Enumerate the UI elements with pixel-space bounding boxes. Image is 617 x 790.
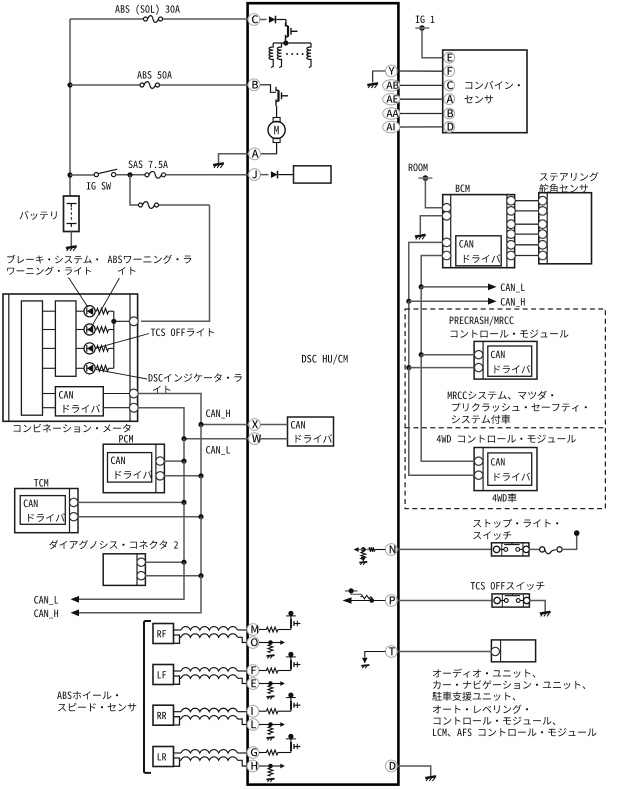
wire BCM to steering sensor 1 <box>515 200 538 202</box>
label CAN_L mid <box>206 446 230 455</box>
power P pull-up <box>349 588 354 593</box>
power stop light <box>574 530 580 536</box>
ellipsis dots coils <box>286 53 309 55</box>
wire CAN_H arrow right <box>409 300 488 302</box>
wire lamp 4 drive <box>43 367 85 369</box>
junction CAN_H at X <box>198 422 203 427</box>
twisted pair LF lower <box>180 675 249 684</box>
label MRCC note line1 <box>448 391 554 400</box>
dashed divider <box>405 427 605 429</box>
wire motor to A <box>261 143 277 154</box>
CAN_L bus vertical right <box>420 287 422 355</box>
wire TCM to CAN_H bus <box>78 516 201 518</box>
twisted pair LR lower <box>180 757 249 766</box>
wire Y internal ground <box>373 71 386 83</box>
label CAN_L right <box>501 284 525 293</box>
wire CAN_H bus to 4WD <box>409 368 475 476</box>
junction H internal <box>268 764 273 769</box>
label TCM <box>34 479 48 487</box>
arrow L internal <box>280 722 285 727</box>
CAN_H bus vertical right <box>408 301 410 367</box>
terminal H <box>247 760 259 772</box>
meter terminal CAN_H <box>129 389 138 398</box>
wire SAS to terminal J <box>166 174 249 176</box>
fuse ABS 50A <box>140 82 160 89</box>
meter lamp driver block <box>55 301 76 376</box>
junction diagnosis CAN_L <box>181 560 186 565</box>
wire coil to power <box>562 533 577 549</box>
twisted pair RR upper <box>174 708 249 711</box>
wire Y to sensor F <box>397 70 443 72</box>
CAN_L bus vertical 3 <box>183 502 185 562</box>
PCM box <box>103 444 164 493</box>
junction lamp bus <box>111 319 116 324</box>
wire battery to ground <box>70 232 72 247</box>
wire C diode to FET <box>285 20 287 26</box>
steering sensor terminal 5 <box>538 241 547 250</box>
junction O internal <box>268 640 273 645</box>
label stop light switch line2 <box>473 531 511 540</box>
meter inner block left <box>21 301 42 415</box>
terminal T <box>385 646 397 658</box>
label SAS 7.5A <box>129 161 168 169</box>
BCM left terminal 1 <box>442 204 451 213</box>
fuse ABS (SOL) 30A <box>144 16 163 23</box>
BCM connector strip right <box>506 195 508 268</box>
sensor terminal D <box>444 122 455 133</box>
BCM connector strip left <box>450 195 452 268</box>
resistor lamp 1 <box>95 308 114 314</box>
meter right connector strip <box>129 294 131 421</box>
diode after J <box>260 171 293 179</box>
CAN_H bus vertical 3 <box>200 517 202 576</box>
ground L internal <box>267 737 275 740</box>
PRECRASH terminal CAN_L <box>474 351 482 359</box>
label ABS (SOL) 30A <box>115 5 180 15</box>
ground at A <box>213 163 224 168</box>
wire lamp-feed branch <box>130 175 210 321</box>
twisted pair RF upper <box>174 627 249 630</box>
resistor E internal vertical <box>268 686 273 694</box>
wire N internal arrow <box>356 549 364 551</box>
terminal AE <box>383 94 400 105</box>
junction PRECRASH CAN_L <box>419 352 424 357</box>
fuse SAS 7.5A <box>145 171 166 178</box>
wire ABS 50A feed <box>70 84 248 86</box>
label CAN_H right <box>501 298 525 307</box>
diode after C <box>260 16 286 24</box>
label battery <box>20 211 57 220</box>
combine sensor box <box>443 50 527 133</box>
label ABS 50A <box>137 71 172 79</box>
junction PCM CAN_H <box>198 473 203 478</box>
diagnosis terminal CAN_H <box>137 572 145 580</box>
label 4WD only <box>492 493 516 502</box>
meter terminal CAN_L <box>129 403 138 412</box>
BCM box <box>443 195 515 268</box>
meter left connector strip <box>8 294 10 421</box>
arrow E internal <box>280 681 285 686</box>
resistor lamp 4 <box>95 365 114 371</box>
BCM right terminal 3 <box>507 220 516 229</box>
steering sensor terminal 3 <box>538 220 547 229</box>
wire E internal <box>259 683 282 685</box>
4WD CAN driver <box>488 453 532 485</box>
ground TCS OFF switch <box>540 612 551 617</box>
solenoid coil 2 <box>277 43 281 68</box>
label audio units line4 <box>433 705 528 714</box>
resistor lamp 3 <box>95 346 114 352</box>
meter terminal lamp feed <box>129 317 138 326</box>
TCM terminal CAN_L <box>70 498 78 506</box>
wire BCM ground <box>420 216 442 234</box>
junction PRECRASH CAN_H <box>406 365 411 370</box>
wire IG SW to SAS fuse <box>116 174 145 176</box>
BCM right terminal 1 <box>507 196 516 205</box>
wire BCM CAN_H to bus <box>409 242 443 301</box>
wire lamp 1 drive <box>43 310 85 312</box>
ground at D <box>425 776 436 781</box>
ground E internal <box>267 696 275 699</box>
wire AI to sensor D <box>400 126 444 128</box>
label stop light switch line1 <box>473 519 558 528</box>
label ABS warning light line2 <box>118 267 136 275</box>
label 4WD control module <box>437 435 576 443</box>
terminal N <box>385 544 397 556</box>
label MRCC note line3 <box>452 415 510 424</box>
arrow CAN_L exit <box>71 596 80 603</box>
steering sensor terminal 1 <box>538 196 547 205</box>
4WD module box <box>474 448 537 491</box>
wire diagnosis to CAN_H bus <box>145 575 201 577</box>
wire BCM to steering sensor 6 <box>515 255 538 257</box>
twisted pair RF lower <box>180 634 249 643</box>
warning lamp 3 <box>84 343 95 354</box>
junction bus/ABS50A <box>67 82 72 87</box>
fuse meter lamp feed <box>139 202 159 209</box>
arrow CAN_H right <box>488 298 497 305</box>
power F internal <box>286 652 296 660</box>
wire battery positive bus <box>69 19 71 196</box>
steering sensor connector strip <box>546 193 548 264</box>
PRECRASH module box <box>474 341 537 379</box>
diagnosis terminal CAN_L <box>137 558 145 566</box>
wheel sensor bracket <box>144 621 151 773</box>
solenoid coil n <box>307 43 311 68</box>
4WD connector strip <box>482 448 484 491</box>
terminal E <box>247 678 259 690</box>
resistor P internal <box>361 595 372 600</box>
BCM right terminal 6 <box>507 251 516 260</box>
label TCS OFF switch <box>471 582 545 591</box>
warning lamp 4 <box>84 363 95 374</box>
warning lamp 1 <box>84 306 95 317</box>
wire ABS (SOL) 30A feed <box>70 18 248 20</box>
wheel speed sensor RR <box>153 705 180 725</box>
PRECRASH connector strip <box>482 341 484 379</box>
wire AA to sensor B <box>400 113 444 115</box>
ground N internal <box>359 562 367 565</box>
terminal AA <box>383 108 400 119</box>
steering sensor terminal 4 <box>538 230 547 239</box>
wire FET to coil bus <box>285 35 287 43</box>
BCM right terminal 2 <box>507 207 516 216</box>
TCS OFF switch <box>492 594 530 607</box>
option modules dashed box <box>405 309 605 509</box>
ground Y internal <box>367 83 378 88</box>
wire IG1 to sensor E <box>422 28 443 58</box>
wire A to ground <box>219 154 249 163</box>
arrow H internal <box>280 764 285 769</box>
label audio units line3 <box>432 692 515 701</box>
resistor F internal <box>259 668 291 673</box>
power M internal <box>286 611 296 619</box>
CAN_H bus vertical left <box>200 425 202 477</box>
twisted pair LF upper <box>174 668 249 671</box>
power ROOM <box>418 175 432 181</box>
audio unit terminal <box>491 647 499 655</box>
arrow N internal down <box>361 557 366 562</box>
wire bus to PRECRASH CAN_L <box>421 354 474 356</box>
sensor terminal A <box>444 94 455 105</box>
wheel speed sensor LF <box>153 665 180 685</box>
resistor H internal vertical <box>268 768 273 776</box>
junction bus/SAS <box>67 172 72 177</box>
label combine sensor line1 <box>465 81 520 90</box>
terminal W <box>249 433 262 445</box>
junction coil bus <box>283 40 288 45</box>
power G internal <box>286 734 296 742</box>
steering sensor terminal 2 <box>538 207 547 216</box>
PRECRASH CAN driver <box>488 346 532 376</box>
resistor N internal horizontal <box>363 547 385 552</box>
junction TCM CAN_H <box>198 514 203 519</box>
label PRECRASH/MRCC line1 <box>450 316 514 326</box>
ground O internal <box>267 655 275 658</box>
ground BCM <box>415 235 426 240</box>
wire CAN_L arrow right <box>421 286 488 288</box>
terminal F <box>247 665 259 677</box>
CAN_L bus vertical left <box>183 439 185 464</box>
junction CAN_L right <box>419 284 424 289</box>
4WD terminal CAN_H <box>474 471 482 479</box>
transistor G internal <box>291 742 301 753</box>
ground battery <box>66 246 77 251</box>
label combine sensor line2 <box>464 95 493 103</box>
resistor G internal <box>259 750 291 755</box>
diagnosis connector box <box>103 554 145 586</box>
terminal D <box>385 760 397 772</box>
4WD terminal CAN_L <box>474 457 482 465</box>
resistor N internal vertical <box>361 552 366 559</box>
wire B to FET <box>260 85 276 93</box>
wire P internal <box>344 600 385 602</box>
terminal C <box>248 14 260 26</box>
wire CAN_L exit <box>79 562 184 599</box>
wire lamp common bus <box>113 311 115 368</box>
wire CAN_L bus to 4WD <box>421 355 474 462</box>
PRECRASH terminal CAN_H <box>474 363 482 371</box>
meter CAN driver <box>55 387 103 416</box>
CAN_H bus vertical 2 <box>200 476 202 517</box>
BCM right terminal 4 <box>507 230 516 239</box>
wire N to stop light switch <box>397 548 491 550</box>
label DSC HU/CM <box>302 354 348 364</box>
label steering angle sensor line2 <box>539 184 588 193</box>
sensor terminal E <box>444 52 455 63</box>
label steering angle sensor line1 <box>540 172 599 181</box>
label PCM <box>119 435 133 443</box>
label MRCC note line2 <box>452 403 587 412</box>
wire bus to PRECRASH CAN_H <box>409 367 475 369</box>
DSC HU/CM unit box <box>248 3 399 784</box>
terminal I <box>247 705 259 717</box>
arrow P internal <box>343 597 352 604</box>
terminal Y <box>385 65 397 77</box>
terminal O <box>247 637 259 649</box>
valve relay block <box>294 166 332 183</box>
wire BCM to steering sensor 4 <box>515 233 538 235</box>
wire meter CAN_L to W <box>138 408 248 439</box>
leader ABS warning light <box>90 278 120 329</box>
label audio units line2 <box>433 680 585 689</box>
transistor F internal <box>291 660 301 671</box>
terminal G <box>247 747 259 759</box>
label BCM <box>456 185 470 193</box>
wire lamp bus to terminal <box>114 320 130 322</box>
label TCS OFF light <box>151 328 214 336</box>
label CAN_H mid <box>206 410 230 419</box>
PCM connector strip <box>155 444 157 493</box>
wire TCM to CAN_L bus <box>78 501 184 503</box>
PCM CAN driver <box>108 453 153 483</box>
junction SAS branch <box>127 172 132 177</box>
terminal B <box>248 79 260 91</box>
TCM CAN driver <box>20 496 65 525</box>
wire FET to motor <box>275 99 278 117</box>
wire lamp 3 drive <box>43 347 85 349</box>
junction PCM CAN_L <box>181 459 186 464</box>
arrow CAN_H exit <box>71 609 80 616</box>
sensor terminal B <box>444 108 455 119</box>
power IG 1 <box>415 25 429 31</box>
label CAN_L exit <box>34 596 58 605</box>
wire TCS switch to ground <box>529 601 545 612</box>
arrow N internal <box>354 547 359 552</box>
steering angle sensor box <box>539 193 592 264</box>
resistor I internal <box>259 709 291 714</box>
label ABS wheel speed sensor line2 <box>58 703 136 712</box>
solenoid coil 1 <box>269 43 273 68</box>
ground H internal <box>267 779 275 782</box>
wire H internal <box>259 765 282 767</box>
wire D to ground <box>397 766 430 776</box>
twisted pair RR lower <box>180 716 249 725</box>
combination meter box <box>3 294 138 421</box>
CAN driver in DSC unit <box>288 417 334 446</box>
arrow CAN_L right <box>488 284 497 291</box>
label DSC indicator light line1 <box>149 373 242 382</box>
terminal J <box>249 169 261 181</box>
arrow O internal <box>280 640 285 645</box>
audio unit box <box>491 640 535 662</box>
wire ROOM to BCM <box>425 178 442 208</box>
label ROOM <box>409 164 428 172</box>
pump motor M <box>268 118 285 143</box>
junction P internal <box>370 598 375 603</box>
power I internal <box>286 693 296 701</box>
wire PCM to CAN_L bus <box>164 460 184 462</box>
label audio units line1 <box>433 669 536 678</box>
label audio units line5 <box>434 717 556 726</box>
PCM terminal CAN_L <box>156 457 164 465</box>
junction E internal <box>268 681 273 686</box>
junction TCM CAN_L <box>181 500 186 505</box>
terminal L <box>247 719 259 731</box>
transistor I internal <box>291 701 301 712</box>
stop light switch <box>492 543 530 556</box>
leader brake warning light <box>69 278 89 308</box>
terminal AI <box>383 121 400 132</box>
battery <box>64 196 80 232</box>
wheel speed sensor LR <box>153 747 180 767</box>
BCM right terminal 5 <box>507 241 516 250</box>
transistor solenoid driver <box>286 22 298 40</box>
TCM terminal CAN_H <box>70 513 78 521</box>
TCM connector strip <box>69 489 71 533</box>
BCM CAN driver <box>456 236 501 266</box>
leader TCS OFF light <box>96 334 149 349</box>
label IG 1 <box>416 16 435 24</box>
resistor M internal <box>259 627 291 632</box>
wire L internal <box>259 724 282 726</box>
wire CAN_H exit <box>79 576 201 613</box>
label brake system warning light line2 <box>7 266 91 275</box>
sensor terminal C <box>444 80 455 91</box>
BCM left terminal 3 <box>442 238 451 247</box>
wire diagnosis to CAN_L bus <box>145 561 184 563</box>
wire PCM to CAN_H bus <box>164 475 201 477</box>
transistor pump motor driver <box>276 87 288 105</box>
wire meter CAN internal <box>43 394 131 408</box>
sensor terminal F <box>444 66 455 77</box>
wire P to TCS OFF switch <box>397 600 492 602</box>
switch IG SW <box>94 169 117 177</box>
wire X to CAN driver <box>260 425 287 439</box>
twisted pair LR upper <box>174 750 249 753</box>
terminal P <box>385 595 397 607</box>
BCM left terminal 4 <box>442 251 451 260</box>
junction diagnosis CAN_H <box>198 573 203 578</box>
terminal X <box>249 419 261 431</box>
wire T internal <box>365 652 386 658</box>
resistor L internal vertical <box>268 727 273 735</box>
wire lamp 2 drive <box>43 329 85 331</box>
label combination meter <box>14 424 131 433</box>
wire O internal <box>259 642 282 644</box>
resistor lamp 2 <box>95 327 114 333</box>
CAN_L bus vertical 2 <box>183 461 185 502</box>
wire BCM CAN_L to bus <box>421 256 442 287</box>
transistor M internal <box>291 619 301 630</box>
label DSC indicator light line2 <box>153 386 171 394</box>
wire AE to sensor A <box>400 98 444 100</box>
label PRECRASH/MRCC line2 <box>451 330 569 338</box>
coil stop light <box>540 547 563 554</box>
label diagnosis connector 2 <box>49 540 178 549</box>
label CAN_H exit <box>34 610 58 619</box>
junction L internal <box>268 722 273 727</box>
